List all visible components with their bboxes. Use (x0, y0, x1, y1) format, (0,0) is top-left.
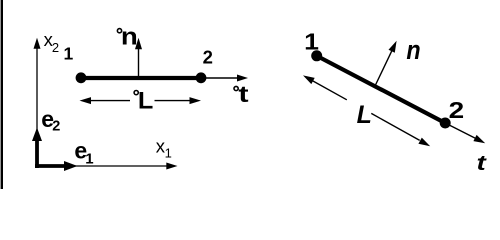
label 0t (234, 86, 238, 90)
svg-text:1: 1 (85, 150, 93, 167)
svg-text:t: t (238, 81, 248, 108)
svg-text:2: 2 (449, 98, 465, 123)
svg-text:L: L (138, 88, 153, 114)
label node 1 (right) (304, 29, 319, 55)
svg-text:L: L (357, 101, 372, 129)
axis x2 arrow (34, 38, 41, 166)
basis vector e2 arrow (32, 128, 42, 169)
arrow n (normal, deformed) (375, 41, 397, 86)
arrow 0t (tangent, undeformed) (201, 75, 248, 82)
node 2 (right) (440, 118, 451, 129)
left border bar (1, 0, 3, 189)
svg-text:1: 1 (64, 44, 74, 64)
svg-text:2: 2 (52, 40, 59, 55)
label node 2 (right) (449, 98, 465, 123)
label L (357, 101, 372, 129)
svg-text:1: 1 (165, 145, 172, 160)
node 1 (right) (311, 50, 322, 61)
element line (deformed) (317, 56, 446, 123)
dimension arrow 0L (80, 97, 202, 104)
svg-text:n: n (121, 22, 138, 50)
label n (406, 36, 420, 66)
svg-text:2: 2 (203, 47, 213, 68)
svg-text:t: t (477, 152, 488, 175)
label t (477, 152, 488, 175)
node 1 (left) (76, 72, 87, 83)
axis x1 arrow (37, 163, 178, 170)
element line (undeformed) (81, 76, 201, 80)
svg-text:n: n (406, 36, 420, 66)
arrow t (tangent, deformed) (445, 123, 485, 143)
basis vector e1 arrow (35, 161, 78, 171)
label 0n (117, 29, 121, 33)
svg-text:1: 1 (304, 29, 319, 55)
dimension arrow L (303, 75, 430, 146)
label 0L (134, 91, 138, 95)
node 2 (left) (196, 72, 207, 83)
svg-text:2: 2 (52, 119, 60, 135)
arrow 0n (normal, undeformed) (135, 38, 142, 77)
